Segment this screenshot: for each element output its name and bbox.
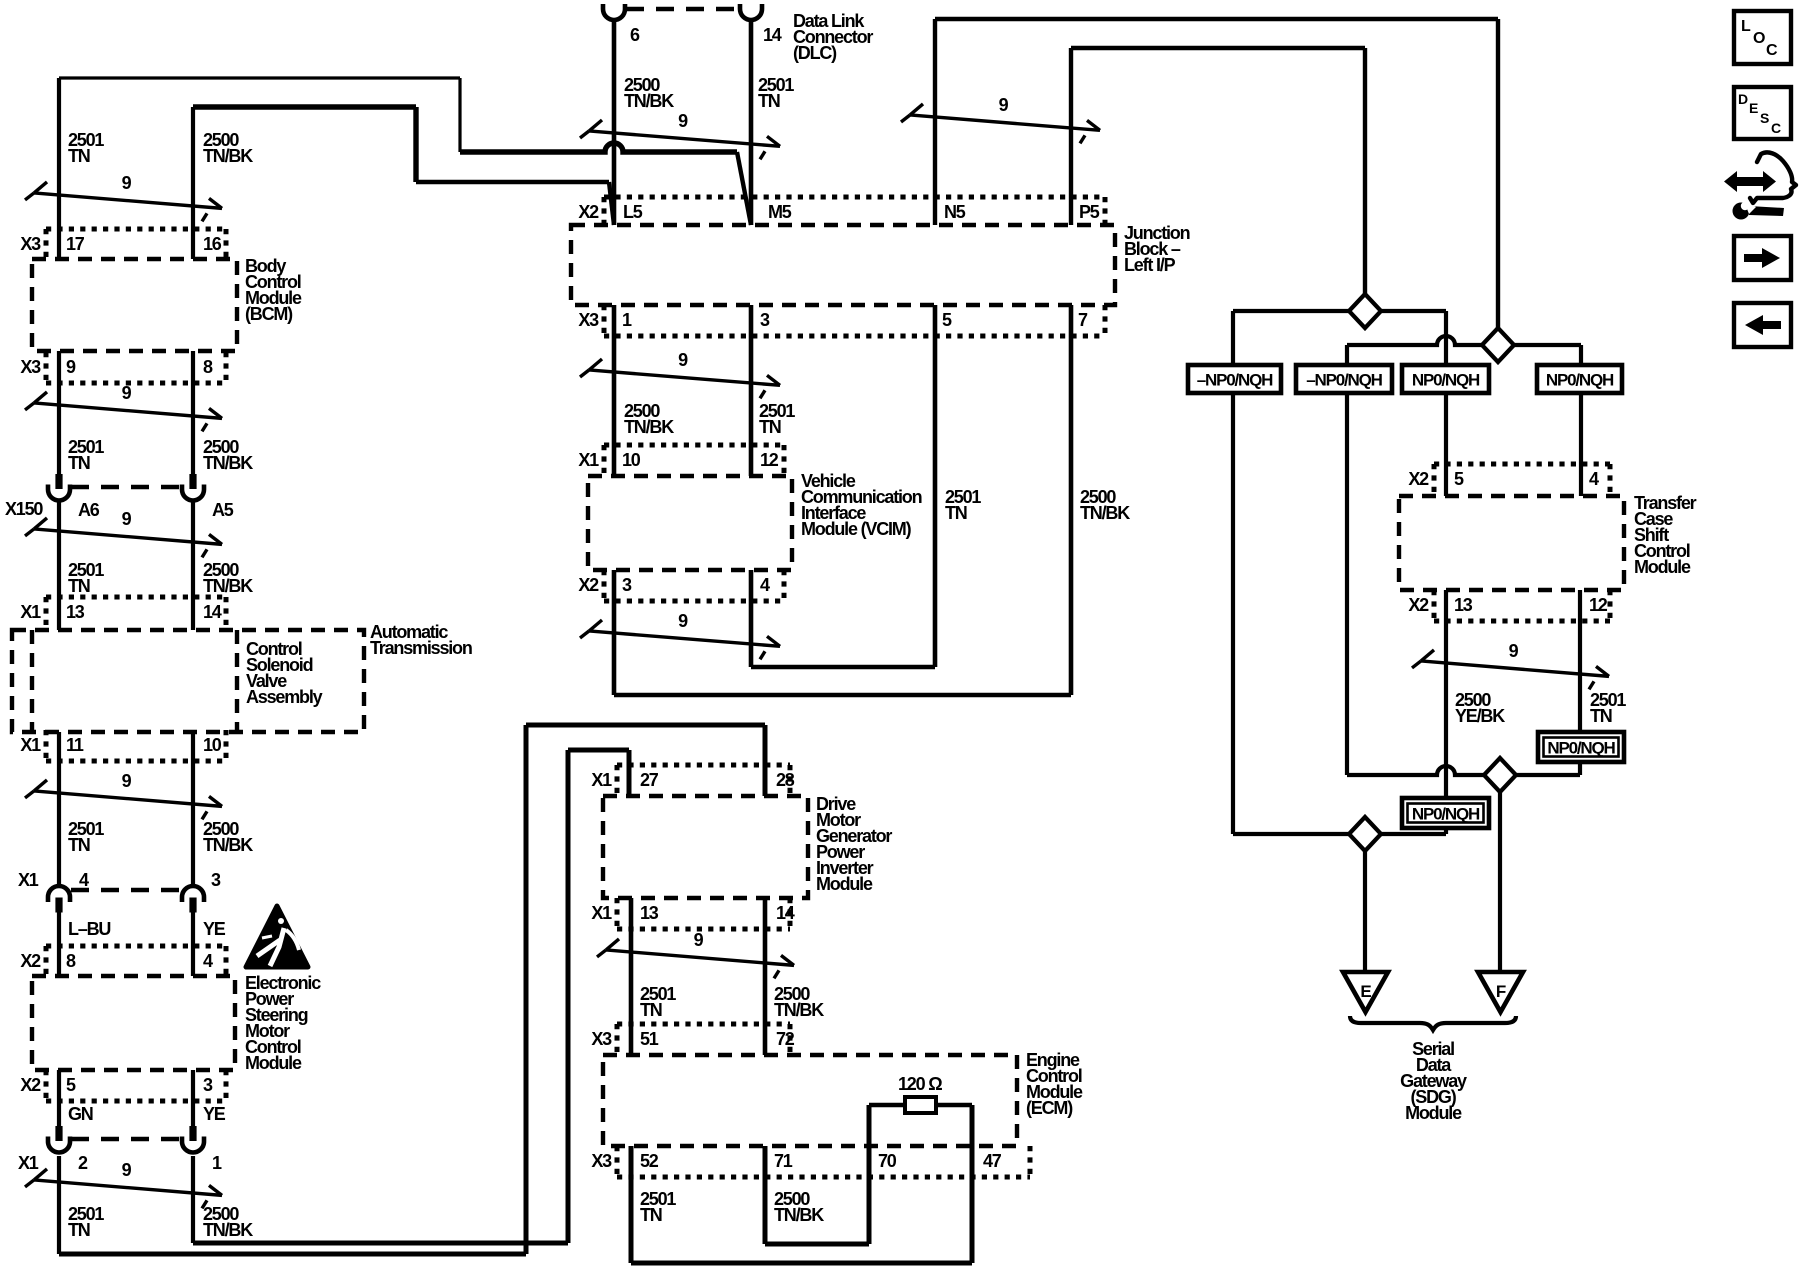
- svg-text:TN: TN: [640, 1000, 662, 1020]
- svg-text:TN: TN: [68, 453, 90, 473]
- svg-text:X1: X1: [20, 735, 41, 755]
- svg-text:3: 3: [203, 1075, 213, 1095]
- svg-text:TN/BK: TN/BK: [203, 835, 253, 855]
- svg-text:4: 4: [203, 951, 213, 971]
- svg-text:X1: X1: [18, 1153, 39, 1173]
- svg-text:–NP0/NQH: –NP0/NQH: [1306, 371, 1382, 390]
- svg-text:Module: Module: [816, 874, 873, 894]
- svg-text:9: 9: [122, 1160, 132, 1180]
- svg-text:14: 14: [776, 903, 795, 923]
- svg-text:16: 16: [203, 234, 222, 254]
- svg-text:O: O: [1753, 30, 1765, 47]
- svg-text:2: 2: [78, 1153, 88, 1173]
- svg-text:P5: P5: [1079, 202, 1100, 222]
- svg-text:TN: TN: [68, 835, 90, 855]
- svg-text:12: 12: [1589, 595, 1608, 615]
- svg-text:YE/BK: YE/BK: [1455, 706, 1505, 726]
- svg-text:4: 4: [79, 870, 89, 890]
- svg-text:YE: YE: [203, 919, 226, 939]
- svg-text:Transmission: Transmission: [370, 638, 472, 658]
- svg-text:X1: X1: [578, 450, 599, 470]
- svg-text:TN: TN: [945, 503, 967, 523]
- svg-text:N5: N5: [944, 202, 966, 222]
- svg-text:NP0/NQH: NP0/NQH: [1547, 739, 1615, 758]
- svg-text:TN: TN: [68, 1220, 90, 1240]
- svg-text:TN: TN: [1590, 706, 1612, 726]
- svg-text:9: 9: [122, 771, 132, 791]
- svg-text:9: 9: [678, 350, 688, 370]
- svg-text:13: 13: [66, 602, 85, 622]
- svg-text:4: 4: [1589, 469, 1599, 489]
- svg-text:71: 71: [774, 1151, 793, 1171]
- svg-text:27: 27: [640, 770, 659, 790]
- svg-text:13: 13: [640, 903, 659, 923]
- svg-text:X3: X3: [20, 234, 41, 254]
- svg-text:11: 11: [66, 735, 84, 755]
- svg-text:28: 28: [776, 770, 795, 790]
- svg-text:1: 1: [622, 310, 632, 330]
- svg-text:NP0/NQH: NP0/NQH: [1412, 371, 1480, 390]
- svg-text:TN/BK: TN/BK: [203, 1220, 253, 1240]
- svg-text:X1: X1: [18, 870, 39, 890]
- svg-text:(ECM): (ECM): [1026, 1098, 1073, 1118]
- svg-text:70: 70: [878, 1151, 897, 1171]
- svg-text:3: 3: [622, 575, 632, 595]
- svg-text:X3: X3: [20, 357, 41, 377]
- svg-text:L–BU: L–BU: [68, 919, 110, 939]
- svg-text:C: C: [1766, 42, 1778, 59]
- svg-text:8: 8: [66, 951, 76, 971]
- svg-text:9: 9: [122, 383, 132, 403]
- svg-text:4: 4: [760, 575, 770, 595]
- svg-text:NP0/NQH: NP0/NQH: [1412, 805, 1480, 824]
- svg-text:GN: GN: [68, 1104, 93, 1124]
- svg-text:YE: YE: [203, 1104, 226, 1124]
- svg-text:17: 17: [66, 234, 85, 254]
- svg-text:9: 9: [678, 111, 688, 131]
- svg-text:(BCM): (BCM): [245, 304, 293, 324]
- svg-text:TN: TN: [640, 1205, 662, 1225]
- svg-text:X1: X1: [591, 770, 612, 790]
- svg-text:M5: M5: [768, 202, 792, 222]
- svg-text:X3: X3: [591, 1029, 612, 1049]
- svg-text:9: 9: [694, 930, 704, 950]
- svg-text:8: 8: [203, 357, 213, 377]
- svg-text:X2: X2: [578, 202, 599, 222]
- svg-text:NP0/NQH: NP0/NQH: [1546, 371, 1614, 390]
- svg-text:9: 9: [999, 95, 1009, 115]
- svg-text:10: 10: [622, 450, 641, 470]
- svg-text:TN/BK: TN/BK: [1080, 503, 1130, 523]
- svg-text:9: 9: [122, 173, 132, 193]
- svg-text:X150: X150: [5, 499, 43, 519]
- svg-text:TN/BK: TN/BK: [774, 1000, 824, 1020]
- svg-text:X1: X1: [20, 602, 41, 622]
- svg-text:Module: Module: [245, 1053, 302, 1073]
- svg-text:5: 5: [942, 310, 952, 330]
- svg-text:TN/BK: TN/BK: [774, 1205, 824, 1225]
- svg-text:47: 47: [983, 1151, 1002, 1171]
- svg-text:9: 9: [66, 357, 76, 377]
- svg-text:72: 72: [776, 1029, 795, 1049]
- svg-text:L: L: [1741, 18, 1751, 35]
- svg-text:X3: X3: [591, 1151, 612, 1171]
- svg-text:5: 5: [1454, 469, 1464, 489]
- svg-text:TN/BK: TN/BK: [203, 453, 253, 473]
- svg-text:Module: Module: [1405, 1103, 1462, 1123]
- svg-text:TN/BK: TN/BK: [624, 91, 674, 111]
- svg-text:X1: X1: [591, 903, 612, 923]
- svg-text:E: E: [1749, 100, 1758, 116]
- svg-text:L5: L5: [623, 202, 643, 222]
- svg-text:9: 9: [678, 611, 688, 631]
- svg-text:TN/BK: TN/BK: [624, 417, 674, 437]
- svg-text:Left I/P: Left I/P: [1124, 255, 1176, 275]
- svg-text:14: 14: [203, 602, 222, 622]
- svg-text:9: 9: [1509, 641, 1519, 661]
- svg-text:F: F: [1496, 982, 1506, 1001]
- svg-text:120 Ω: 120 Ω: [898, 1074, 942, 1094]
- svg-text:Module: Module: [1634, 557, 1691, 577]
- svg-text:Assembly: Assembly: [246, 687, 323, 707]
- svg-text:–NP0/NQH: –NP0/NQH: [1197, 371, 1273, 390]
- svg-text:9: 9: [122, 509, 132, 529]
- svg-text:E: E: [1360, 982, 1371, 1001]
- svg-text:TN/BK: TN/BK: [203, 576, 253, 596]
- svg-text:5: 5: [66, 1075, 76, 1095]
- svg-text:TN/BK: TN/BK: [203, 146, 253, 166]
- svg-text:6: 6: [630, 25, 640, 45]
- svg-text:3: 3: [760, 310, 770, 330]
- svg-text:X2: X2: [1408, 595, 1429, 615]
- svg-text:X2: X2: [578, 575, 599, 595]
- svg-text:13: 13: [1454, 595, 1473, 615]
- svg-text:TN: TN: [68, 146, 90, 166]
- svg-text:12: 12: [760, 450, 779, 470]
- svg-text:1: 1: [212, 1153, 222, 1173]
- svg-text:C: C: [1771, 120, 1781, 136]
- svg-text:TN: TN: [758, 91, 780, 111]
- svg-text:52: 52: [640, 1151, 659, 1171]
- svg-text:S: S: [1760, 110, 1769, 126]
- svg-text:X2: X2: [20, 951, 41, 971]
- svg-text:TN: TN: [759, 417, 781, 437]
- svg-text:51: 51: [640, 1029, 659, 1049]
- svg-text:7: 7: [1078, 310, 1088, 330]
- svg-text:10: 10: [203, 735, 222, 755]
- svg-text:D: D: [1738, 91, 1748, 107]
- svg-text:Module (VCIM): Module (VCIM): [801, 519, 912, 539]
- svg-text:X2: X2: [1408, 469, 1429, 489]
- svg-text:14: 14: [763, 25, 782, 45]
- svg-text:X2: X2: [20, 1075, 41, 1095]
- svg-text:(DLC): (DLC): [793, 43, 837, 63]
- svg-text:X3: X3: [578, 310, 599, 330]
- svg-text:A6: A6: [78, 500, 100, 520]
- svg-text:TN: TN: [68, 576, 90, 596]
- svg-text:3: 3: [211, 870, 221, 890]
- svg-text:A5: A5: [212, 500, 234, 520]
